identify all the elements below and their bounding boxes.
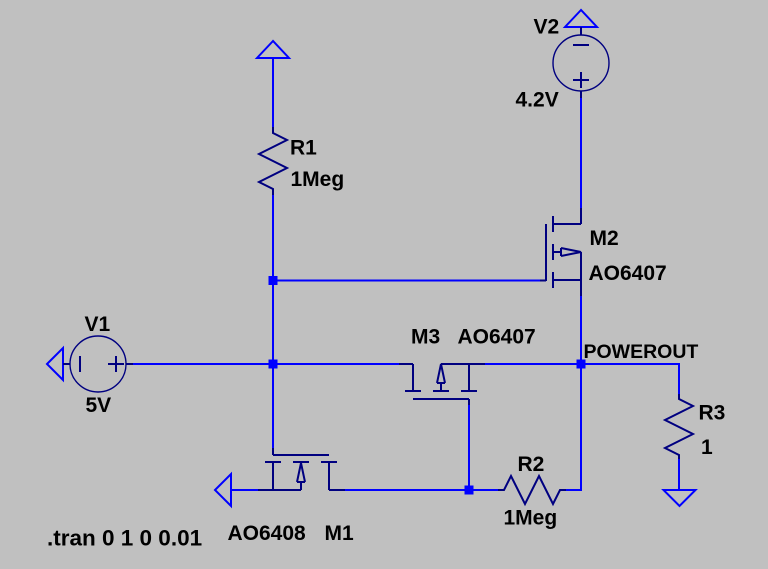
svg-text:M3: M3 xyxy=(411,326,440,349)
resistor R2 xyxy=(498,476,566,504)
voltage source V2 xyxy=(553,27,609,98)
svg-text:R3: R3 xyxy=(699,402,726,425)
wire node A to M2 gate xyxy=(273,280,541,282)
svg-text:M2: M2 xyxy=(590,227,619,250)
wire POWEROUT down to R2 right xyxy=(564,364,581,490)
voltage source V1 xyxy=(63,336,133,392)
svg-text:.tran 0 1 0 0.01: .tran 0 1 0 0.01 xyxy=(47,526,202,551)
wire flag to M1 source xyxy=(231,489,259,491)
resistor R3 xyxy=(665,394,693,460)
transistor M2 (PMOS AO6407) xyxy=(540,208,581,296)
svg-text:AO6407: AO6407 xyxy=(458,326,536,349)
svg-text:1: 1 xyxy=(701,436,713,459)
svg-text:R2: R2 xyxy=(518,453,545,476)
wire M3 gate down to node C xyxy=(468,405,470,490)
svg-text:1Meg: 1Meg xyxy=(504,507,558,530)
power flag above R1 xyxy=(257,41,289,58)
power flag above V2 xyxy=(565,10,597,27)
resistor R1 xyxy=(259,127,287,196)
transistor M1 (NMOS AO6408) xyxy=(258,448,345,490)
node A junction (R1 / M2 gate) xyxy=(269,276,278,285)
node C junction (M1 / M3 gate / R2) xyxy=(465,486,474,495)
wire V2 to M2 drain xyxy=(580,98,582,208)
wire node A to node B xyxy=(272,281,274,365)
wire R1 top flag to R1 xyxy=(272,58,274,128)
wire M1 drain to node C xyxy=(345,489,469,491)
wire M3 source to node POWEROUT xyxy=(485,363,581,365)
transistor M3 (PMOS AO6407) xyxy=(399,364,485,406)
node B junction (V1 / M3 / M1 gate column) xyxy=(269,360,278,369)
svg-text:5V: 5V xyxy=(86,394,112,417)
svg-text:AO6407: AO6407 xyxy=(589,262,667,285)
node POWEROUT junction xyxy=(577,360,586,369)
ground below R3 xyxy=(664,490,696,506)
svg-text:V1: V1 xyxy=(85,313,111,336)
wire node B to M3 drain xyxy=(273,363,400,365)
wire M2 source to node POWEROUT xyxy=(580,296,582,364)
svg-text:V2: V2 xyxy=(534,16,560,39)
svg-text:R1: R1 xyxy=(290,137,317,160)
ground flag left of V1 xyxy=(47,348,68,380)
svg-text:M1: M1 xyxy=(325,522,354,545)
wire node C to R2 xyxy=(469,489,499,491)
wire POWEROUT to R3 xyxy=(581,364,679,395)
svg-text:POWEROUT: POWEROUT xyxy=(584,341,699,363)
wire node B to M1 gate xyxy=(272,364,274,449)
svg-text:4.2V: 4.2V xyxy=(516,89,559,112)
svg-text:1Meg: 1Meg xyxy=(291,168,345,191)
ground flag left of M1 xyxy=(215,474,231,506)
wire V1 to node B xyxy=(133,363,273,365)
wire R3 to ground xyxy=(678,459,680,490)
wire R1 bottom to node A xyxy=(272,195,274,281)
svg-text:AO6408: AO6408 xyxy=(228,522,307,545)
